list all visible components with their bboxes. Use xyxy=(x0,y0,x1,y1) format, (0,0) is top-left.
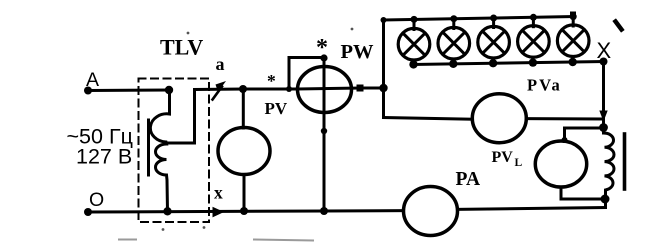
PW vertical diameter / voltage lead xyxy=(323,58,326,212)
svg-text:PA: PA xyxy=(456,169,481,190)
svg-text:PW: PW xyxy=(341,41,375,63)
lamp EL2 xyxy=(438,15,470,68)
node bottom rail right end xyxy=(600,58,608,66)
inductor L winding xyxy=(604,133,614,208)
node PV top junction xyxy=(239,85,247,93)
svg-text:L: L xyxy=(515,157,523,169)
svg-text:A: A xyxy=(86,69,99,91)
lamp EL3 xyxy=(478,15,510,68)
lamp EL1 xyxy=(398,16,430,69)
lamp bank top rail xyxy=(384,17,574,21)
PVL top terminal dot xyxy=(562,137,568,143)
svg-text:*: * xyxy=(316,35,328,61)
PW exit terminal dot xyxy=(357,85,364,92)
voltmeter PVa xyxy=(472,94,526,143)
terminal O xyxy=(84,208,92,216)
voltmeter PV xyxy=(218,128,270,175)
terminal x arrow xyxy=(213,207,225,218)
lamp bank right drop wire xyxy=(602,62,605,113)
PW current coil wire (horizontal through) xyxy=(298,88,361,89)
node winding bottom xyxy=(163,207,171,215)
PW voltage coil bracket xyxy=(289,58,324,90)
svg-text:127 В: 127 В xyxy=(76,145,132,169)
bottom wire PA to inductor xyxy=(458,208,606,210)
PVL bottom lead xyxy=(561,187,605,199)
node lamp rail corner xyxy=(381,17,387,23)
svg-text:PV: PV xyxy=(265,99,288,118)
lamp EL5 xyxy=(557,13,589,66)
transformer core xyxy=(147,120,150,175)
top rail end tick xyxy=(570,12,576,18)
terminal a arrow xyxy=(213,81,227,100)
voltmeter PVL xyxy=(535,141,586,187)
inductor core xyxy=(623,134,627,189)
node PW bracket on wire xyxy=(286,86,292,92)
svg-text:a: a xyxy=(216,54,225,74)
svg-text:PVa: PVa xyxy=(527,76,562,95)
terminal A xyxy=(84,87,92,95)
svg-text:X: X xyxy=(597,38,612,63)
wire PVa to right junction xyxy=(526,117,603,120)
lamp bank bottom rail xyxy=(413,62,604,65)
ammeter PA xyxy=(404,187,458,236)
transformer winding xyxy=(150,90,169,211)
node PVa right junction xyxy=(602,117,605,133)
node top of winding xyxy=(165,86,173,94)
PV bottom lead xyxy=(243,175,246,212)
node PW bottom xyxy=(320,207,328,215)
svg-text:PV: PV xyxy=(492,149,514,166)
node PW bracket top xyxy=(320,54,327,61)
faint scan artifacts bottom xyxy=(119,240,313,241)
wire A to transformer winding top xyxy=(88,89,169,93)
wire PW to lamp-bank node xyxy=(360,87,384,90)
svg-text:TLV: TLV xyxy=(160,35,203,60)
PV top lead xyxy=(242,89,245,128)
svg-text:x: x xyxy=(214,183,223,203)
PVL top lead xyxy=(565,128,604,142)
wattmeter PW xyxy=(298,67,352,113)
small blob on PW bottom lead xyxy=(321,128,327,134)
lamp bank left riser xyxy=(382,20,385,118)
arrowhead on drop wire xyxy=(599,111,607,122)
node PVL bottom junction xyxy=(601,195,610,204)
node PV bottom xyxy=(240,207,248,215)
stray pen tick top right xyxy=(616,22,622,30)
tap wire from winding to terminal a xyxy=(166,89,243,143)
lamp EL4 xyxy=(518,14,550,67)
transformer TLV boundary (dashed) xyxy=(139,79,210,223)
svg-text:O: O xyxy=(89,189,104,211)
wire junction to wattmeter xyxy=(243,88,298,91)
node after PW xyxy=(379,84,387,92)
bottom wire O to PA xyxy=(88,211,404,212)
wire node to PVa xyxy=(384,118,473,120)
